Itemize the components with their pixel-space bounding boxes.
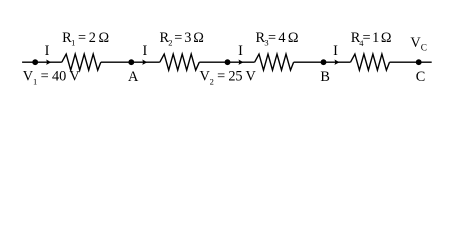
resistor R1	[62, 54, 101, 70]
wire between R2 and R3 through node V2	[199, 61, 254, 63]
svg-text:I: I	[45, 43, 50, 59]
node C dot	[416, 59, 422, 65]
svg-text:B: B	[320, 69, 330, 85]
wire between R3 and R4 through node B	[294, 61, 351, 63]
wire left lead to node V1	[22, 61, 62, 63]
svg-text:C: C	[416, 69, 426, 85]
current arrow 3	[239, 60, 244, 65]
svg-text:R2 = 3 Ω: R2 = 3 Ω	[160, 30, 204, 48]
svg-text:R3= 4 Ω: R3= 4 Ω	[256, 30, 299, 48]
node A dot	[128, 59, 134, 65]
wire between R1 and R2 through node A	[101, 61, 160, 63]
svg-text:I: I	[333, 43, 338, 59]
svg-text:V1 = 40 V: V1 = 40 V	[23, 68, 81, 86]
resistor R2	[160, 54, 200, 70]
svg-text:R1 = 2 Ω: R1 = 2 Ω	[62, 30, 109, 48]
svg-text:R4= 1 Ω: R4= 1 Ω	[351, 30, 392, 48]
resistor R3	[255, 54, 294, 70]
node V2 dot	[225, 59, 231, 65]
wire from R4 through node C to right end	[390, 61, 432, 63]
resistor R4	[351, 54, 390, 70]
svg-text:VC: VC	[410, 35, 427, 54]
node V1 dot	[32, 59, 38, 65]
current arrow 4	[335, 60, 340, 65]
svg-text:V2 = 25 V: V2 = 25 V	[200, 69, 257, 87]
current arrow 2	[142, 60, 147, 65]
current arrow 1	[46, 60, 51, 65]
svg-text:I: I	[238, 43, 243, 59]
node B dot	[321, 59, 327, 65]
svg-text:I: I	[143, 43, 148, 59]
svg-text:A: A	[128, 69, 139, 85]
